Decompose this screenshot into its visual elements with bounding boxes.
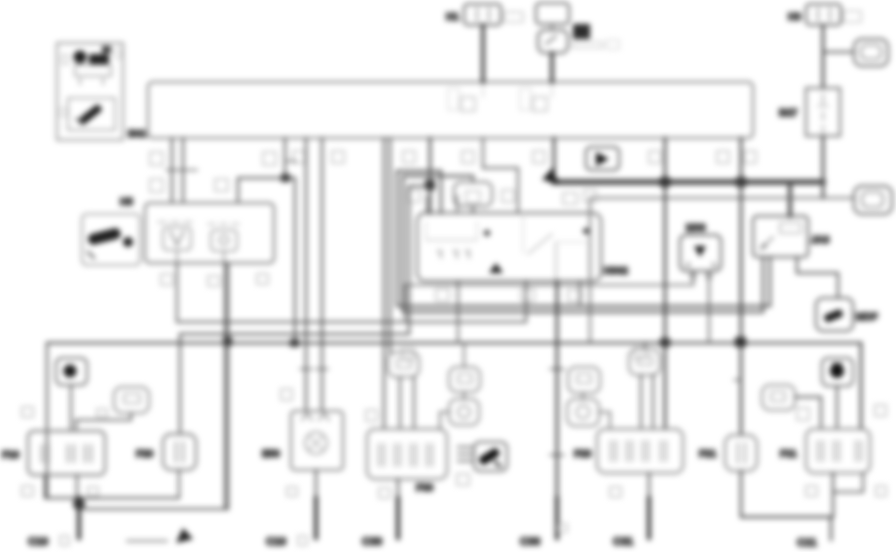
svg-text:H1: H1 [446, 12, 459, 23]
dark wire to F21 [740, 138, 743, 435]
fuse F20 [163, 434, 196, 470]
right corner into F11 [860, 343, 862, 429]
wire fuse B elbow [76, 413, 131, 431]
small inline connector S1 [454, 182, 492, 206]
label (B) [843, 11, 861, 22]
F30 bottom wire [397, 479, 399, 524]
fuse box F30 [367, 429, 447, 479]
bottom-left supply comp [56, 358, 87, 385]
wire H002 bottom drop B [579, 281, 581, 306]
clip T2 [854, 186, 892, 214]
svg-text:F21: F21 [699, 449, 717, 460]
F20 bottom wire [178, 470, 180, 498]
wire comp to F10 [70, 385, 72, 431]
wires fuse to F30 [399, 377, 401, 429]
F23 bottom wire [648, 473, 650, 524]
junction bus x741 [736, 177, 746, 187]
thick bus wire [554, 179, 823, 185]
svg-text:MDF: MDF [856, 312, 878, 323]
wire L284 [405, 285, 693, 322]
svg-text:C30: C30 [362, 536, 382, 548]
pins below H002 [436, 289, 581, 301]
junction node x285 [281, 174, 290, 182]
wire JA3 to MDF [797, 257, 838, 298]
svg-text:F23: F23 [574, 449, 592, 460]
wire bundle third [180, 186, 430, 434]
F10 drop wires [44, 475, 46, 498]
icon box left of H5 [82, 214, 140, 265]
icon stack left [568, 367, 600, 393]
svg-text:F30: F30 [416, 483, 434, 494]
svg-text:F11: F11 [780, 449, 797, 460]
pins E50 [281, 389, 292, 400]
connector H1 top [464, 4, 501, 25]
wires B001 to H5 [171, 138, 173, 203]
bottom bus b1 [45, 497, 179, 499]
battery icon above F11 [822, 358, 853, 386]
svg-text:H5: H5 [120, 197, 133, 208]
legend line bottom [127, 540, 167, 542]
C10b stub [314, 498, 318, 538]
junction node x228 [223, 337, 232, 346]
junction node x295 L343 [290, 339, 299, 347]
junction at F21 wire [735, 337, 746, 347]
inline fuse above F30 [388, 352, 419, 377]
wires to E50 [305, 138, 307, 411]
bottom bus b2 [84, 263, 225, 509]
svg-text:H002: H002 [604, 266, 628, 277]
wire H5 to H002 [177, 263, 526, 322]
clip T1 [854, 39, 888, 66]
pins below H5 [161, 274, 268, 286]
pins above H002 [408, 190, 596, 202]
wire B001 to H002 [429, 138, 431, 213]
label (A) [504, 12, 523, 22]
gray net to clip T2 [590, 198, 854, 342]
fuse box F23 [597, 429, 683, 473]
bus arrow corner [542, 168, 565, 191]
connector H2 top [536, 3, 569, 24]
wire net pair lower [403, 176, 763, 312]
svg-text:JA3: JA3 [811, 235, 830, 246]
C36 stub [555, 498, 559, 538]
svg-text:B27: B27 [779, 108, 798, 119]
icons right of F30 [449, 367, 480, 392]
inline fuse left of F11 [762, 385, 795, 410]
dark wire H002 to C36 [556, 281, 559, 524]
relay JA3 [753, 216, 808, 257]
svg-text:F20: F20 [136, 449, 154, 460]
wire with elbow into H5 [284, 138, 286, 178]
fuse F10 [28, 431, 105, 475]
ground dashes [458, 447, 472, 461]
M008 pin circles [690, 273, 696, 279]
inline fuse icon B [114, 387, 149, 413]
pins F10 [22, 407, 107, 496]
pin boxes mid band [402, 348, 414, 360]
dark wire to F23 [664, 138, 667, 429]
legend box top-left [57, 43, 123, 140]
wires to F30 [383, 138, 385, 429]
svg-text:F10: F10 [2, 450, 20, 461]
stub pins H002 top [427, 196, 457, 213]
wire H002 bottom drop A [457, 281, 459, 343]
fuse box F11 [806, 429, 870, 473]
wire H1 to B001 [481, 25, 485, 82]
wire feed from B001 elbow [483, 138, 518, 213]
F21 bottom route to C11 [741, 471, 831, 540]
junction blob C10 [73, 498, 85, 510]
hand icon dark [474, 442, 507, 471]
inline fuse above F23 [629, 349, 660, 375]
E50 bottom wire [315, 470, 317, 524]
svg-text:C10: C10 [28, 536, 48, 548]
long bus line L343 [47, 342, 861, 344]
label B02 block [573, 24, 590, 39]
stub S1 top [472, 176, 474, 182]
wire H5 right drop [84, 263, 228, 509]
connector H3 top right [806, 4, 841, 25]
M008 wires [692, 271, 694, 285]
junction L343 x665 [660, 338, 670, 347]
joint tick [166, 169, 197, 171]
svg-text:C10: C10 [266, 536, 286, 548]
stub S1 bottom [472, 206, 474, 213]
wire H2 to B001 [550, 53, 554, 82]
svg-text:C36: C36 [520, 536, 540, 548]
pin row below B001 [150, 151, 756, 204]
fuse F21 [725, 435, 757, 471]
C31 stub [647, 498, 651, 538]
wire net pair upper [397, 171, 770, 306]
wire B2 down [822, 136, 825, 198]
relay blob under H2 [538, 24, 568, 53]
switch unit H5 [145, 203, 274, 263]
F11 bottom wires [832, 473, 834, 517]
big control unit box B001 [148, 82, 753, 138]
branch to clip T1 [823, 51, 854, 53]
pins F11 [797, 405, 886, 496]
svg-text:C31: C31 [613, 536, 633, 548]
junction node x430 [425, 180, 435, 190]
C10 stub [77, 498, 81, 538]
svg-text:M08: M08 [686, 223, 706, 234]
fuse holder MDF [816, 298, 853, 331]
svg-text:E50: E50 [262, 449, 280, 460]
component B2 right [806, 88, 840, 136]
arrow icon below B001 [586, 147, 619, 170]
legend arrow bottom [176, 528, 193, 543]
main body unit H002 [417, 213, 601, 281]
C30 stub [396, 498, 400, 538]
bus feeder from B001 [553, 138, 556, 179]
lamp E50 [291, 411, 343, 470]
pins F30 [366, 410, 377, 421]
svg-text:H3: H3 [788, 12, 801, 23]
bus drop to JA3 [788, 184, 792, 216]
tick [287, 160, 296, 162]
svg-text:B01: B01 [128, 129, 147, 140]
left loop down [46, 343, 48, 498]
svg-text:C11: C11 [797, 537, 817, 549]
wire H3 down [822, 25, 825, 88]
